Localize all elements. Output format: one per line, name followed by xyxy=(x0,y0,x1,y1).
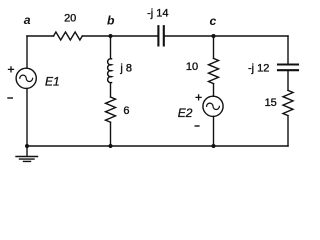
E2 minus sign xyxy=(195,125,199,127)
wire: node b down to inductor j8 xyxy=(110,36,112,59)
resistor R 20ohm xyxy=(54,32,83,40)
wire: resistor 6 to bottom wire xyxy=(110,122,112,146)
capacitor C -j14 plates xyxy=(158,26,163,45)
junction dot bottom of E2 branch xyxy=(212,144,216,148)
svg-text:-j 14: -j 14 xyxy=(147,8,168,20)
resistor R 10ohm xyxy=(209,58,219,83)
resistor R 6ohm xyxy=(106,97,116,122)
ground bars xyxy=(16,157,38,162)
wire: source E1 to bottom-left corner xyxy=(26,89,28,147)
wire: resistor 10 to source E2 xyxy=(213,84,215,97)
svg-text:E1: E1 xyxy=(45,74,60,88)
svg-text:a: a xyxy=(24,13,31,27)
svg-text:6: 6 xyxy=(123,105,129,117)
resistor R 15ohm xyxy=(283,90,293,115)
junction dot ground node xyxy=(25,144,29,148)
wire: source E2 to bottom wire xyxy=(213,116,215,146)
svg-text:15: 15 xyxy=(265,97,277,109)
svg-text:c: c xyxy=(210,14,217,28)
capacitor C -j12 plates xyxy=(278,65,298,71)
wire top: node a to resistor 20 xyxy=(27,35,54,37)
wire: inductor j8 to resistor 6 xyxy=(110,83,112,97)
svg-text:20: 20 xyxy=(64,12,76,24)
wire bottom xyxy=(27,145,288,147)
wire: capacitor -j14 to top-right corner through node c xyxy=(165,35,288,37)
wire left: node a down to source E1 xyxy=(26,36,28,68)
source E2 sine xyxy=(207,103,220,109)
E1 minus sign xyxy=(8,97,12,99)
svg-text:E2: E2 xyxy=(178,106,193,120)
wire right side down to capacitor -j12 xyxy=(287,36,289,64)
E1 plus sign xyxy=(9,67,14,72)
source E1 circle xyxy=(16,68,36,88)
junction dot node c xyxy=(212,34,216,38)
svg-text:-j 12: -j 12 xyxy=(248,63,269,75)
ground stub xyxy=(26,146,28,156)
inductor L j8 xyxy=(108,59,112,83)
wire: resistor 20 to capacitor -j14 through node b xyxy=(82,35,157,37)
E2 plus sign xyxy=(196,95,201,100)
source E2 circle xyxy=(203,96,223,116)
source E1 sine xyxy=(20,75,33,81)
junction dot node b xyxy=(109,34,113,38)
svg-text:j 8: j 8 xyxy=(119,63,132,75)
wire: capacitor -j12 to resistor 15 xyxy=(287,71,289,90)
junction dot bottom of resistor 6 branch xyxy=(109,144,113,148)
wire: resistor 15 to bottom-right corner xyxy=(287,116,289,146)
wire: node c down to resistor 10 xyxy=(213,36,215,58)
svg-text:10: 10 xyxy=(186,61,198,73)
svg-text:b: b xyxy=(107,14,115,28)
